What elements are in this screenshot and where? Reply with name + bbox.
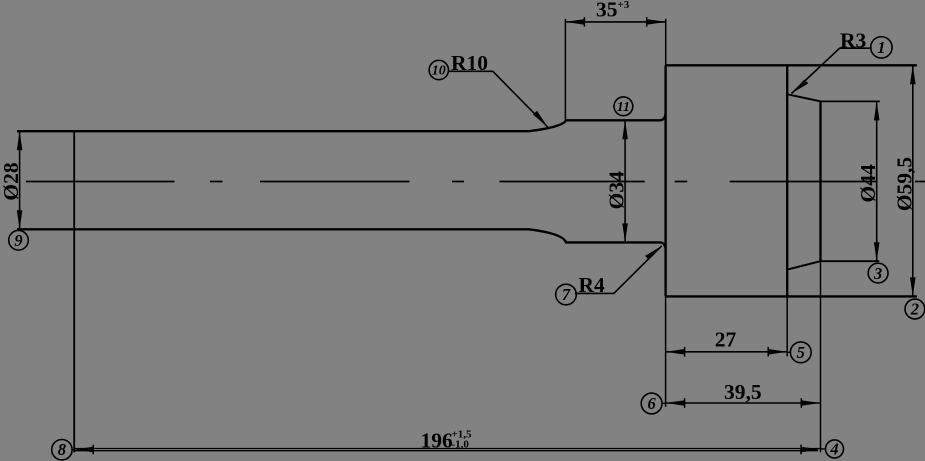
flange bottom [666,295,917,297]
svg-text:9: 9 [14,231,22,250]
27 dim line [666,351,788,353]
balloon 5 [790,342,811,363]
dia28 dim arrows [17,131,23,150]
35 dim arrows [565,19,584,25]
cone bottom slant [788,261,821,269]
svg-text:6: 6 [647,394,656,413]
27 right extension [786,296,788,356]
svg-text:Ø44: Ø44 [856,164,880,202]
balloon 2 [905,299,925,319]
39.5 dim line [666,402,821,404]
svg-text:10: 10 [432,64,446,79]
flange right face / cone base [786,65,788,296]
flange left face [664,65,666,296]
leader R10 [448,71,548,127]
balloon 3 [868,263,888,283]
svg-text:R4: R4 [579,273,606,297]
35 dim left extension [564,19,566,121]
dia44 dim line [876,101,878,261]
flange top [666,64,917,66]
cone top slant [788,94,821,101]
balloon 8 [52,440,72,460]
svg-text:39,5: 39,5 [724,380,762,404]
feature line x74 (196 extension) [73,131,75,452]
extension lines [565,19,820,453]
svg-text:R3: R3 [840,28,867,52]
shaft outline top [17,114,666,131]
27/39.5 left extension [665,296,667,406]
left end face / dia28 dim line [19,131,21,229]
svg-text:27: 27 [715,328,737,352]
svg-text:R10: R10 [451,51,488,75]
R4 leader arrow [645,246,662,260]
39.5/196 right extension [820,261,822,452]
svg-text:Ø28: Ø28 [0,162,23,200]
svg-text:-1,0: -1,0 [452,438,470,450]
dia59.5 dim line [912,65,914,296]
196 dim arrows [74,447,93,453]
dia44 dim arrows [874,101,880,120]
svg-text:7: 7 [562,285,571,304]
leader R4 [575,246,662,294]
balloon 11 [614,97,633,116]
balloon 10 [429,60,448,79]
svg-text:8: 8 [58,440,66,459]
svg-text:11: 11 [617,100,630,115]
svg-text:3: 3 [873,264,882,283]
39.5 dim arrows [666,400,685,406]
balloon connector lines [72,352,826,449]
dia59.5 dim arrows [910,65,916,84]
svg-text:4: 4 [829,440,838,459]
balloon 1 [871,37,892,58]
balloon 7 [556,284,577,305]
27 dim arrows [666,349,685,355]
dia44 top edge/extension [821,100,880,102]
svg-text:+3: +3 [618,0,630,11]
svg-text:Ø59,5: Ø59,5 [892,157,916,211]
centerline [26,181,925,183]
196 dim double line [74,448,820,450]
leader R3 [792,48,872,93]
dia34 dim arrows [622,120,628,139]
balloon 6 [641,393,662,414]
balloon 9 [9,230,29,250]
balloon 4 [826,440,844,459]
R3 leader arrow [792,80,809,94]
R10 leader arrow [533,111,548,127]
svg-text:196: 196 [421,429,454,453]
dia44 bottom edge/extension [821,260,880,262]
svg-text:5: 5 [797,343,805,362]
svg-text:2: 2 [910,300,919,319]
35 dim right extension [665,19,667,66]
stub right face [819,101,821,261]
shaft outline bottom [17,229,666,248]
svg-text:1: 1 [877,38,885,57]
svg-text:35: 35 [596,0,618,22]
arrow base ticks [93,17,801,454]
svg-text:Ø34: Ø34 [605,171,629,209]
35 dim line [565,21,665,23]
dia34 dim line [624,120,626,242]
